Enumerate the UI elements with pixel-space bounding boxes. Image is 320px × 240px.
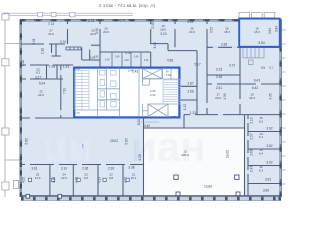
- svg-text:3.92: 3.92: [266, 127, 272, 131]
- svg-text:18.6: 18.6: [160, 27, 166, 31]
- svg-text:5.83: 5.83: [125, 138, 129, 144]
- svg-text:3.10: 3.10: [61, 166, 67, 170]
- svg-text:2.43: 2.43: [150, 93, 156, 97]
- svg-text:2.23: 2.23: [216, 68, 222, 72]
- svg-text:4.14: 4.14: [52, 177, 56, 183]
- svg-text:2.36: 2.36: [108, 166, 114, 170]
- svg-text:2.10: 2.10: [41, 48, 45, 54]
- svg-text:4.58: 4.58: [167, 59, 173, 63]
- svg-text:15.3: 15.3: [254, 30, 260, 34]
- top band: [67, 20, 69, 44]
- svg-text:5.01: 5.01: [32, 38, 36, 44]
- svg-text:1.40: 1.40: [115, 57, 120, 59]
- left wall piers: [20, 20, 22, 198]
- svg-text:5.17: 5.17: [194, 62, 200, 66]
- svg-text:1.40: 1.40: [134, 57, 139, 59]
- svg-text:2.57: 2.57: [250, 133, 254, 139]
- svg-text:6.3: 6.3: [259, 168, 264, 172]
- svg-text:4.18: 4.18: [75, 177, 79, 183]
- svg-text:24.0: 24.0: [38, 93, 44, 97]
- svg-text:19.02: 19.02: [226, 150, 230, 158]
- svg-text:3.27: 3.27: [35, 76, 41, 80]
- svg-text:4.35: 4.35: [187, 20, 193, 24]
- svg-text:12.6: 12.6: [61, 176, 67, 180]
- door gaps: [25, 24, 261, 174]
- svg-text:3.38: 3.38: [221, 43, 227, 47]
- vertical labels: [21, 22, 279, 183]
- right mid: [196, 51, 198, 115]
- svg-text:2.42: 2.42: [124, 60, 129, 62]
- svg-text:6.1: 6.1: [259, 135, 264, 139]
- svg-text:29.02: 29.02: [110, 139, 118, 143]
- svg-text:3.55: 3.55: [210, 27, 214, 33]
- svg-text:20.6: 20.6: [215, 96, 221, 100]
- svg-text:1.40: 1.40: [105, 60, 110, 62]
- svg-text:7.39: 7.39: [63, 88, 67, 94]
- svg-text:3.24: 3.24: [160, 32, 166, 36]
- stairwell hatch light: [243, 47, 264, 64]
- svg-text:2.19: 2.19: [250, 117, 254, 123]
- right wall piers: [279, 47, 281, 198]
- svg-text:1.58: 1.58: [49, 65, 55, 69]
- stair hatch left: [75, 71, 89, 111]
- big room and strip: [143, 118, 145, 196]
- svg-text:иан: иан: [131, 123, 206, 170]
- svg-text:2.75: 2.75: [88, 19, 94, 23]
- svg-text:пом.: пом.: [82, 143, 85, 148]
- left mid band: [51, 44, 53, 53]
- svg-text:10.1: 10.1: [131, 176, 137, 180]
- bottom window band: [21, 197, 281, 201]
- svg-text:2.48: 2.48: [216, 75, 222, 79]
- svg-text:6.42: 6.42: [252, 86, 258, 90]
- svg-text:26а: 26а: [261, 65, 266, 69]
- unit inner labels: [76, 69, 177, 119]
- svg-text:2 этаж - 741 кв.м. (кор. А): 2 этаж - 741 кв.м. (кор. А): [99, 3, 156, 9]
- top-right balcony squares: [239, 13, 250, 18]
- svg-text:3.38: 3.38: [128, 166, 134, 170]
- svg-text:Специнформация: Специнформация: [141, 121, 160, 124]
- svg-text:9.6: 9.6: [84, 176, 89, 180]
- svg-text:4.90: 4.90: [95, 28, 99, 34]
- svg-text:14.9: 14.9: [35, 176, 41, 180]
- two-line room labels: [35, 24, 264, 180]
- svg-text:6.3: 6.3: [36, 71, 41, 75]
- right column rooms: [248, 131, 280, 133]
- svg-text:2.66: 2.66: [187, 90, 193, 94]
- plan base fill: [20, 20, 282, 198]
- left balcony squares: [2, 14, 9, 20]
- svg-text:1.95: 1.95: [94, 57, 99, 59]
- wc fixtures: [100, 71, 117, 107]
- svg-text:2.51: 2.51: [216, 86, 222, 90]
- bottom wall: [20, 195, 282, 197]
- svg-text:6.42: 6.42: [119, 19, 125, 23]
- svg-text:29.6: 29.6: [103, 30, 109, 34]
- svg-text:4.39: 4.39: [223, 93, 227, 99]
- svg-text:4.35: 4.35: [269, 93, 273, 99]
- svg-text:1.23: 1.23: [190, 111, 196, 115]
- svg-text:4.28: 4.28: [138, 154, 142, 160]
- svg-text:1.23: 1.23: [63, 65, 69, 69]
- svg-text:2.36: 2.36: [82, 166, 88, 170]
- svg-text:13.80: 13.80: [204, 184, 212, 188]
- svg-text:3.90: 3.90: [263, 188, 269, 192]
- svg-text:230.4: 230.4: [181, 153, 189, 157]
- svg-text:5.80: 5.80: [25, 138, 29, 144]
- svg-text:2.66: 2.66: [250, 149, 254, 155]
- svg-text:31.6: 31.6: [48, 32, 54, 36]
- svg-text:3.61: 3.61: [31, 166, 37, 170]
- left outer line: [4, 14, 6, 197]
- big room 13 white fill: [144, 128, 246, 197]
- svg-text:2.43: 2.43: [250, 166, 254, 172]
- svg-text:3.84: 3.84: [268, 28, 272, 34]
- svg-text:3.44: 3.44: [153, 42, 157, 48]
- svg-text:6.00: 6.00: [137, 119, 141, 125]
- svg-text:4.27: 4.27: [124, 177, 128, 183]
- svg-text:3.04: 3.04: [166, 73, 172, 77]
- svg-text:4.29: 4.29: [171, 115, 177, 119]
- svg-text:3.70: 3.70: [60, 40, 66, 44]
- svg-text:2.40: 2.40: [151, 22, 155, 28]
- svg-text:2.43: 2.43: [132, 70, 138, 74]
- door squares next to bottom labels: [28, 178, 129, 181]
- svg-text:3.92: 3.92: [265, 177, 271, 181]
- svg-text:4.05: 4.05: [22, 177, 26, 183]
- svg-text:3.02: 3.02: [266, 160, 272, 164]
- svg-text:3.84: 3.84: [275, 26, 279, 32]
- svg-text:7.13: 7.13: [48, 22, 54, 26]
- svg-text:5.84: 5.84: [258, 41, 264, 45]
- svg-text:18.3: 18.3: [224, 30, 230, 34]
- svg-text:6.43: 6.43: [254, 78, 260, 82]
- top wall piers: [20, 19, 239, 21]
- svg-text:6.4: 6.4: [259, 152, 264, 156]
- svg-text:3.72: 3.72: [229, 64, 235, 68]
- watermark: [42, 123, 206, 170]
- svg-text:36.3: 36.3: [249, 96, 255, 100]
- closet row: [66, 47, 81, 50]
- svg-text:5.04: 5.04: [39, 82, 45, 86]
- svg-text:6.2: 6.2: [259, 120, 264, 124]
- svg-text:20.3: 20.3: [189, 30, 195, 34]
- svg-text:ци: ци: [42, 123, 94, 170]
- svg-text:1.22: 1.22: [183, 104, 187, 110]
- svg-text:4.13: 4.13: [98, 177, 102, 183]
- svg-text:3.40: 3.40: [144, 124, 150, 128]
- elevators: [143, 69, 169, 117]
- svg-text:3.82: 3.82: [266, 144, 272, 148]
- stair hatch right: [163, 80, 180, 104]
- svg-text:2.87: 2.87: [187, 81, 193, 85]
- svg-text:1.20: 1.20: [21, 60, 25, 66]
- svg-text:11.40: 11.40: [125, 53, 131, 55]
- svg-text:5.1: 5.1: [269, 65, 273, 69]
- mini room dividers: [112, 52, 141, 67]
- bottom row rooms: [21, 164, 144, 166]
- svg-text:1.40: 1.40: [144, 60, 149, 62]
- right outer window sills: [282, 30, 286, 184]
- svg-text:9.8: 9.8: [109, 176, 114, 180]
- canopy double line top-left: [4, 12, 133, 14]
